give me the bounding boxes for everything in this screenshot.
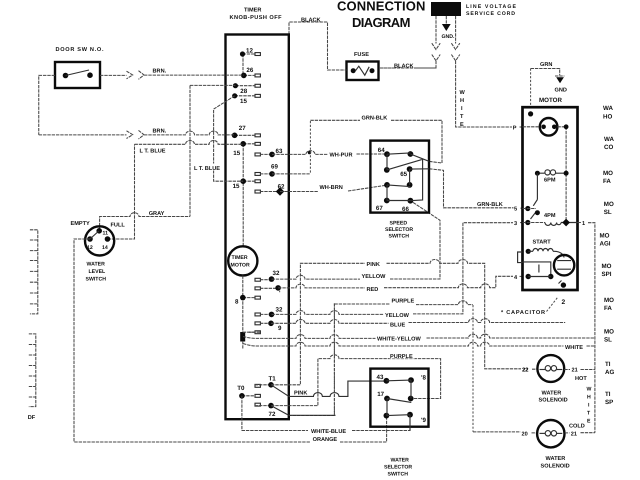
svg-text:SL: SL xyxy=(604,209,612,216)
svg-text:AG: AG xyxy=(605,369,614,376)
svg-text:SL: SL xyxy=(604,337,612,344)
svg-text:DIAGRAM: DIAGRAM xyxy=(352,15,411,30)
svg-text:'8: '8 xyxy=(421,374,426,381)
svg-text:BLACK: BLACK xyxy=(301,18,321,24)
svg-text:15: 15 xyxy=(233,150,240,157)
svg-text:SWITCH: SWITCH xyxy=(389,234,410,240)
svg-text:WATER: WATER xyxy=(391,458,410,464)
svg-text:15: 15 xyxy=(233,183,240,190)
svg-text:WATER: WATER xyxy=(546,456,566,462)
svg-text:3: 3 xyxy=(514,221,517,227)
svg-text:FA: FA xyxy=(603,178,611,185)
svg-text:6PM: 6PM xyxy=(544,178,556,184)
svg-text:72: 72 xyxy=(269,411,276,418)
svg-text:MO: MO xyxy=(604,201,614,208)
svg-text:GRN: GRN xyxy=(540,62,552,68)
svg-text:WHITE-YELLOW: WHITE-YELLOW xyxy=(377,337,422,343)
svg-text:PINK: PINK xyxy=(294,391,307,397)
svg-text:FA: FA xyxy=(604,305,612,312)
svg-text:SPI: SPI xyxy=(602,271,612,278)
svg-text:43: 43 xyxy=(377,374,384,381)
svg-text:9: 9 xyxy=(278,325,282,332)
svg-text:MO: MO xyxy=(602,263,612,270)
svg-text:BRN.: BRN. xyxy=(153,129,167,135)
svg-text:SOLENOID: SOLENOID xyxy=(539,397,568,403)
svg-text:21: 21 xyxy=(571,431,577,437)
svg-text:H: H xyxy=(587,395,591,401)
svg-text:32: 32 xyxy=(276,306,283,313)
svg-text:1: 1 xyxy=(582,221,585,227)
svg-text:27: 27 xyxy=(239,125,246,132)
svg-text:17: 17 xyxy=(377,391,384,398)
svg-text:GRN-BLK: GRN-BLK xyxy=(362,115,388,121)
svg-text:TI: TI xyxy=(605,361,611,368)
svg-text:PINK: PINK xyxy=(367,262,380,268)
svg-text:PURPLE: PURPLE xyxy=(390,354,413,360)
svg-text:11: 11 xyxy=(103,231,109,237)
svg-text:28: 28 xyxy=(240,88,247,95)
svg-text:4PM: 4PM xyxy=(544,213,556,219)
svg-text:14: 14 xyxy=(102,245,108,251)
svg-text:E: E xyxy=(587,419,591,425)
svg-text:SELECTOR: SELECTOR xyxy=(385,227,413,233)
svg-text:* CAPACITOR: * CAPACITOR xyxy=(501,310,545,316)
svg-text:20: 20 xyxy=(522,431,528,437)
svg-text:MO: MO xyxy=(603,170,613,177)
svg-text:FUSE: FUSE xyxy=(354,52,369,58)
svg-text:START: START xyxy=(533,240,552,246)
svg-text:P: P xyxy=(513,125,517,131)
svg-text:'9: '9 xyxy=(421,417,426,424)
svg-text:YELLOW: YELLOW xyxy=(362,274,387,280)
svg-text:WH-PUR: WH-PUR xyxy=(330,152,353,158)
svg-text:SP: SP xyxy=(605,399,613,406)
svg-text:ORANGE: ORANGE xyxy=(313,437,338,443)
svg-text:DOOR SW N.O.: DOOR SW N.O. xyxy=(56,47,104,53)
svg-text:YELLOW: YELLOW xyxy=(385,313,410,319)
svg-text:12: 12 xyxy=(87,245,93,251)
svg-text:5: 5 xyxy=(514,207,517,213)
svg-text:GND: GND xyxy=(555,88,567,94)
svg-text:64: 64 xyxy=(378,147,385,154)
svg-text:MO: MO xyxy=(600,233,610,240)
svg-text:GND.: GND. xyxy=(442,34,456,40)
svg-text:FULL: FULL xyxy=(111,222,126,228)
svg-text:COLD: COLD xyxy=(569,423,585,429)
svg-text:WHITE: WHITE xyxy=(565,345,583,351)
svg-text:21: 21 xyxy=(572,367,578,373)
svg-text:T1: T1 xyxy=(269,376,277,383)
svg-text:SELECTOR: SELECTOR xyxy=(384,465,412,471)
svg-text:MOTOR: MOTOR xyxy=(539,97,562,104)
svg-text:WHITE-BLUE: WHITE-BLUE xyxy=(311,429,346,435)
svg-text:W: W xyxy=(460,90,466,96)
svg-text:H: H xyxy=(460,98,464,104)
svg-text:WATER: WATER xyxy=(542,390,562,396)
svg-text:AGI: AGI xyxy=(600,240,611,247)
svg-text:15: 15 xyxy=(240,98,247,105)
svg-text:MO: MO xyxy=(604,297,614,304)
svg-text:MO: MO xyxy=(604,329,614,336)
svg-text:WATER: WATER xyxy=(87,262,106,268)
svg-text:KNOB-PUSH OFF: KNOB-PUSH OFF xyxy=(230,15,283,21)
svg-text:GRAY: GRAY xyxy=(149,211,165,217)
svg-text:T0: T0 xyxy=(237,385,245,392)
svg-text:2: 2 xyxy=(562,299,566,306)
svg-text:E: E xyxy=(460,122,464,128)
svg-text:WA: WA xyxy=(603,105,613,112)
svg-text:8: 8 xyxy=(235,299,239,306)
svg-text:SOLENOID: SOLENOID xyxy=(541,463,570,469)
svg-text:LINE VOLTAGE: LINE VOLTAGE xyxy=(466,4,517,10)
svg-text:CO: CO xyxy=(604,144,613,151)
svg-text:SWITCH: SWITCH xyxy=(388,472,409,478)
svg-text:69: 69 xyxy=(271,164,278,171)
svg-text:RED: RED xyxy=(367,287,379,293)
svg-text:WA: WA xyxy=(604,136,614,143)
svg-text:CONNECTION: CONNECTION xyxy=(337,0,426,14)
svg-text:TIMER: TIMER xyxy=(232,255,248,261)
svg-text:66: 66 xyxy=(402,206,409,213)
svg-text:BLACK: BLACK xyxy=(394,64,414,70)
svg-text:GRN-BLK: GRN-BLK xyxy=(477,202,503,208)
svg-text:WH-BRN: WH-BRN xyxy=(320,185,343,191)
svg-text:32: 32 xyxy=(273,270,280,277)
svg-text:PURPLE: PURPLE xyxy=(392,299,415,305)
svg-text:SWITCH: SWITCH xyxy=(86,277,107,283)
svg-text:62: 62 xyxy=(278,183,285,190)
svg-text:HO: HO xyxy=(603,114,612,121)
svg-text:MOTOR: MOTOR xyxy=(231,263,250,269)
svg-text:65: 65 xyxy=(400,171,407,178)
svg-text:DF: DF xyxy=(28,415,36,421)
svg-text:26: 26 xyxy=(246,67,253,74)
svg-text:TIMER: TIMER xyxy=(244,8,261,14)
svg-text:EMPTY: EMPTY xyxy=(71,221,91,227)
svg-text:HOT: HOT xyxy=(575,376,587,382)
svg-text:LEVEL: LEVEL xyxy=(89,269,107,275)
svg-text:SERVICE CORD: SERVICE CORD xyxy=(466,11,515,17)
svg-text:12: 12 xyxy=(246,48,253,55)
svg-text:TI: TI xyxy=(605,391,611,398)
svg-text:L T. BLUE: L T. BLUE xyxy=(140,148,166,154)
svg-text:L T. BLUE: L T. BLUE xyxy=(194,166,220,172)
svg-text:67: 67 xyxy=(376,205,383,212)
svg-text:SPEED: SPEED xyxy=(390,221,408,227)
svg-text:BLUE: BLUE xyxy=(390,323,405,329)
svg-text:T: T xyxy=(460,114,464,120)
svg-text:BRN.: BRN. xyxy=(153,68,167,74)
svg-text:W: W xyxy=(587,387,592,393)
svg-text:22: 22 xyxy=(522,368,528,374)
